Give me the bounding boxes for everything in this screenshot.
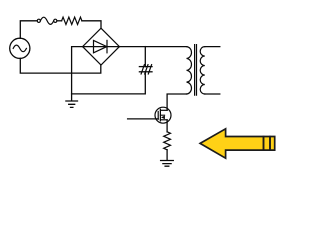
MOSFET Q1 body circle [155,107,171,123]
MOSFET channel bar [159,109,161,121]
wire AC top lead [20,21,37,39]
wire fuse to resistor [57,20,62,22]
wire resistor R2 to ground [166,150,168,160]
transformer T1 secondary winding [200,47,205,94]
resistor R1 [62,17,82,24]
wire AC bottom rail to bridge bottom [20,58,101,73]
resistor R2 [164,132,171,150]
bridge diode horizontal line [83,46,120,48]
MOSFET source stub [160,119,167,121]
capacitor C1 top plate [139,66,152,68]
bridge rectifier D1 diamond [83,28,120,65]
ground GND1 [66,101,78,107]
fuse F1 left circle [37,19,40,22]
fuse F1 right circle [54,19,57,22]
MOSFET source arrow [161,116,165,120]
MOSFET drain stub [160,109,167,111]
transformer secondary bottom lead [205,93,220,95]
capacitor C1 slashes [141,65,152,74]
AC sine wave [13,45,26,52]
arrow tail stripe 2 [269,136,271,151]
ground GND2 [161,161,174,167]
wire primary bottom lead to MOSFET drain [167,94,186,110]
MOSFET bulk stub [160,114,164,116]
transformer T1 primary winding [187,47,192,94]
transformer secondary top lead [205,46,220,48]
AC source V1 [10,38,30,58]
wire MOSFET source to resistor R2 [166,120,168,132]
wire top rail bridge to transformer [119,46,186,48]
MOSFET gate bar [157,112,159,120]
arrow tail stripe 1 [263,136,265,151]
transformer T1 core [195,45,197,96]
bridge diode cathode bar [106,40,108,52]
fuse F1 wave [40,17,53,24]
wire bridge left vertex to ground [72,47,83,101]
yellow arrow pointing left [200,129,275,158]
bridge diode triangle [94,40,107,52]
capacitor C1 bottom plate [139,71,152,73]
wire ground rail to capacitor bottom [72,72,146,94]
wire capacitor top lead [144,47,146,67]
wire resistor to bridge top [82,21,101,28]
MOSFET gate lead [128,118,159,120]
